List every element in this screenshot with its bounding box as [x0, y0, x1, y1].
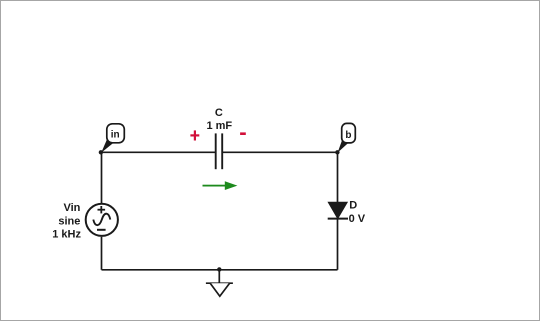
- junction dot ground: [217, 267, 221, 271]
- ground top bar: [206, 282, 233, 284]
- wire top-left (node in to capacitor): [102, 151, 216, 153]
- polarity minus sign: [240, 132, 246, 135]
- wire right upper (node b to diode): [337, 152, 339, 202]
- svg-text:1 kHz: 1 kHz: [52, 229, 81, 241]
- junction dot node b: [335, 150, 339, 154]
- node tag in: tail: [101, 140, 114, 153]
- diode D triangle: [328, 202, 347, 218]
- wire top-right (capacitor to node b): [222, 151, 337, 153]
- voltage source sine wave: [93, 214, 110, 226]
- node tag b: tail: [338, 140, 349, 153]
- node tag in: box: [107, 124, 125, 143]
- svg-text:b: b: [345, 130, 351, 141]
- svg-text:D: D: [349, 200, 357, 212]
- svg-text:sine: sine: [58, 216, 80, 228]
- wire left lower (source V1 to bottom rail): [101, 237, 103, 270]
- wire left upper (node in to source V1): [101, 152, 103, 204]
- wire bottom rail: [102, 269, 338, 271]
- ground triangle: [210, 283, 229, 296]
- ground stub wire: [218, 269, 220, 283]
- node tag b: box: [342, 123, 356, 142]
- polarity plus sign: [190, 130, 199, 140]
- junction dot node in: [99, 150, 103, 154]
- svg-text:Vin: Vin: [63, 202, 80, 214]
- voltage source plus mark: [98, 206, 106, 213]
- capacitor C plates: [216, 133, 223, 169]
- svg-text:0 V: 0 V: [349, 213, 366, 225]
- diode cathode bar: [328, 218, 348, 220]
- voltage source V1 circle: [86, 204, 118, 236]
- svg-text:C: C: [215, 107, 223, 119]
- svg-text:in: in: [111, 130, 120, 141]
- voltage source minus mark: [97, 229, 106, 231]
- wire right lower (diode to bottom rail): [337, 219, 339, 270]
- svg-text:1 mF: 1 mF: [206, 120, 232, 132]
- current direction arrow (green): [203, 181, 238, 190]
